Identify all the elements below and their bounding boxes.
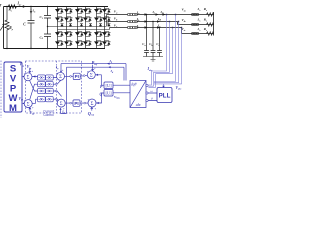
svg-text:[U]: [U]	[105, 83, 112, 88]
svg-text:PI: PI	[74, 101, 78, 106]
svg-text:dqθ: dqθ	[131, 82, 137, 86]
svg-text:abc: abc	[136, 103, 142, 107]
svg-text:[U]: [U]	[105, 91, 112, 96]
svg-text:Q: Q	[100, 92, 103, 96]
svg-text:PLL: PLL	[159, 93, 171, 100]
svg-text:M: M	[9, 103, 17, 114]
svg-text:Σ: Σ	[90, 74, 93, 79]
svg-text:Σ: Σ	[27, 102, 30, 107]
svg-text:Σ: Σ	[59, 75, 62, 80]
svg-text:PI: PI	[75, 74, 79, 79]
svg-text:Σ: Σ	[27, 76, 30, 81]
svg-text:Control: Control	[43, 113, 54, 117]
svg-text:Σ: Σ	[91, 102, 94, 107]
